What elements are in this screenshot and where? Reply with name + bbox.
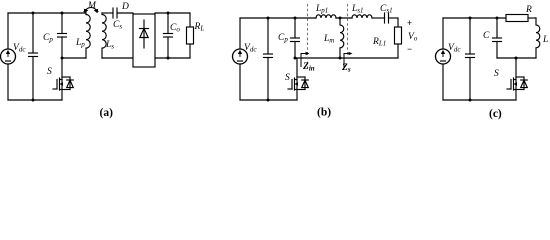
svg-text:Vdc: Vdc bbox=[13, 43, 26, 54]
node dot (b) Lm-node bbox=[339, 57, 342, 60]
wire left vertical (a) bbox=[7, 13, 9, 49]
wire top rail (a) primary bbox=[8, 12, 86, 14]
svg-text:Vo: Vo bbox=[408, 32, 418, 43]
node dot (a) rail-Cdc bbox=[32, 12, 35, 15]
node dot (a) rail-Cp bbox=[61, 12, 64, 15]
svg-text:Ls: Ls bbox=[105, 40, 114, 51]
wire secondary top (a) bbox=[102, 12, 113, 14]
svg-text:Lp1: Lp1 bbox=[315, 4, 328, 15]
svg-text:Lm: Lm bbox=[323, 34, 334, 45]
node dot (c) bottom-Cdc bbox=[469, 99, 472, 102]
svg-text:Vdc: Vdc bbox=[448, 43, 461, 54]
svg-text:S: S bbox=[285, 73, 290, 83]
node dot (b) rail-Cdc bbox=[267, 17, 270, 20]
wire top rail (b) bbox=[240, 17, 316, 19]
node dot (c) rail-C bbox=[496, 17, 499, 20]
node dot (c) node-S bbox=[515, 57, 518, 60]
node dot (c) rail-Cdc bbox=[469, 17, 472, 20]
inductor Lsl (b) bbox=[352, 15, 372, 18]
wire bottom rail (b) bbox=[240, 99, 297, 101]
capacitor C (c) bbox=[496, 18, 498, 38]
rectifier box D (a) bbox=[133, 14, 155, 67]
wire node (c) bbox=[497, 57, 536, 59]
capacitor Cdc (a) bbox=[32, 13, 34, 53]
svg-text:D: D bbox=[121, 2, 129, 12]
node dot (b) rail-Cp bbox=[294, 17, 297, 20]
svg-text:Co: Co bbox=[170, 23, 180, 34]
inductor Ls (a) bbox=[102, 13, 106, 58]
node dot (b) Cp-S bbox=[294, 57, 297, 60]
inductor Lp (a) bbox=[86, 13, 90, 58]
svg-text:S: S bbox=[47, 67, 52, 77]
capacitor Cp (a) bbox=[61, 13, 63, 34]
impedance boundary Zin dashed (b) bbox=[307, 4, 309, 68]
svg-text:C: C bbox=[483, 31, 490, 41]
wire output bottom (a) bbox=[155, 57, 190, 59]
capacitor Cdc (b) bbox=[267, 18, 269, 54]
capacitor Cdc (c) bbox=[469, 18, 471, 54]
svg-text:Cs1: Cs1 bbox=[380, 4, 393, 15]
svg-text:RL1: RL1 bbox=[372, 37, 386, 48]
node dot (a) Cp-S bbox=[61, 57, 64, 60]
transistor S (a) bbox=[53, 58, 73, 100]
wire rail (b) Lpl to Lsl bbox=[336, 17, 352, 19]
svg-text:(c): (c) bbox=[489, 108, 502, 120]
svg-text:(b): (b) bbox=[317, 107, 331, 119]
resistor RL1 (b) bbox=[397, 18, 399, 27]
wire node (b) bbox=[295, 57, 398, 59]
wire secondary bottom (a) bbox=[102, 57, 133, 59]
svg-text:(a): (a) bbox=[100, 107, 114, 119]
wire bottom rail (c) bbox=[443, 99, 516, 101]
svg-text:+: + bbox=[407, 18, 412, 28]
svg-text:−: − bbox=[407, 44, 412, 54]
svg-text:Lp: Lp bbox=[75, 38, 85, 49]
wire output top (a) bbox=[155, 12, 190, 14]
svg-text:Vdc: Vdc bbox=[244, 43, 257, 54]
source V_dc (c) bbox=[436, 49, 451, 64]
arrow Zin (b) bbox=[301, 54, 306, 68]
inductor Lm (b) bbox=[340, 18, 344, 58]
transistor S (c) bbox=[507, 58, 527, 100]
source V_dc (a) bbox=[1, 49, 16, 64]
capacitor Csl (b) bbox=[384, 13, 386, 23]
wire bottom rail (a) bbox=[8, 99, 62, 101]
source V_dc (b) bbox=[233, 49, 248, 64]
svg-text:Ls1: Ls1 bbox=[351, 4, 364, 15]
svg-text:L: L bbox=[542, 35, 548, 45]
resistor R (c) bbox=[506, 15, 528, 22]
capacitor Co (a) bbox=[167, 13, 169, 34]
node dot (b) bottom-Cdc bbox=[267, 99, 270, 102]
inductor L (c) bbox=[536, 18, 540, 58]
svg-text:Cp: Cp bbox=[43, 33, 53, 44]
svg-text:S: S bbox=[494, 69, 499, 79]
node dot (a) bottom-Co bbox=[167, 57, 170, 60]
svg-text:M: M bbox=[87, 1, 97, 11]
arrow Zs (b) bbox=[344, 54, 349, 68]
wire node (a) Cp to Lp bbox=[62, 57, 86, 59]
svg-text:R: R bbox=[525, 5, 532, 15]
wire rail (b) Lsl to Csl bbox=[372, 17, 385, 19]
svg-text:Zin: Zin bbox=[302, 62, 315, 73]
svg-text:Cp: Cp bbox=[278, 33, 288, 44]
capacitor Cs (a) bbox=[112, 8, 114, 18]
capacitor Cp (b) bbox=[294, 18, 296, 38]
wire top rail (c) bbox=[443, 17, 506, 19]
node dot (a) rail-Co bbox=[167, 12, 170, 15]
node dot (a) bottom-Cdc bbox=[32, 99, 35, 102]
node dot (b) rail-Lm bbox=[339, 17, 342, 20]
inductor Lpl (b) bbox=[316, 15, 336, 18]
arrow M coupling (a) bbox=[84, 8, 98, 12]
svg-text:RL: RL bbox=[194, 22, 205, 33]
svg-text:Cs: Cs bbox=[113, 20, 122, 31]
resistor RL (a) bbox=[189, 13, 191, 27]
transistor S (b) bbox=[288, 58, 308, 100]
impedance boundary Zs dashed (b) bbox=[347, 4, 349, 58]
diode D (a) bbox=[143, 20, 145, 48]
wire left vertical (c) bbox=[442, 18, 444, 49]
svg-text:Zs: Zs bbox=[341, 63, 351, 74]
wire left vertical (b) bbox=[239, 18, 241, 49]
